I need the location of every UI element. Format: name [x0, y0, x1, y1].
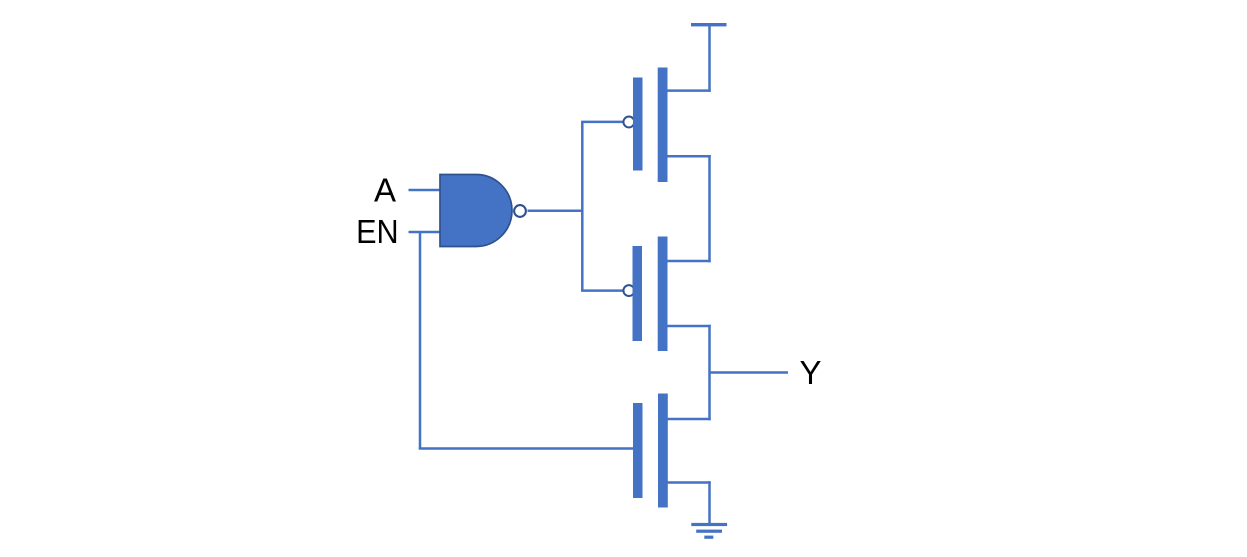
wire: input A to NAND — [409, 189, 441, 192]
ground bar 2 — [696, 530, 722, 533]
wire: Q1 drain to VDD — [667, 89, 711, 92]
wire: output Y — [710, 371, 789, 374]
wire: Q3 source — [668, 481, 711, 484]
wire: branch to Q1 gate — [581, 121, 623, 124]
transistor Q2 (PMOS) gate bar — [633, 246, 643, 341]
wire: NAND output — [528, 210, 584, 213]
transistor Q2 (PMOS) channel bar — [658, 237, 668, 352]
NAND gate U1 output bubble — [514, 205, 526, 217]
power VDD rail bar — [691, 23, 727, 26]
wire: VDD vertical — [708, 25, 711, 92]
svg-text:A: A — [374, 172, 396, 209]
svg-text:EN: EN — [356, 213, 399, 250]
ground bar 3 — [704, 536, 713, 539]
wire: input EN to NAND — [409, 231, 441, 234]
wire: Q2 drain — [667, 260, 711, 263]
ground bar 1 — [691, 523, 727, 526]
wire: Q2 source — [667, 325, 711, 328]
wire: Q3 drain up to Y — [668, 418, 711, 421]
svg-text:Y: Y — [800, 354, 822, 391]
wire: Q2 source to Q3 drain vertical (node Y) — [708, 325, 711, 420]
transistor Q1 gate bubble — [623, 117, 634, 128]
wire: gate branch vertical — [581, 122, 584, 291]
transistor Q3 (NMOS) channel bar — [658, 394, 668, 508]
wire: Q1 source down — [667, 155, 711, 158]
wire: source to ground vertical — [708, 481, 711, 524]
transistor Q2 gate bubble — [623, 285, 634, 296]
wire: EN branch down — [419, 232, 422, 449]
transistor Q1 (PMOS) gate bar — [633, 78, 643, 171]
wire: EN to NMOS Q3 gate — [419, 447, 633, 450]
wire: Q1 source to Q2 drain vertical — [708, 155, 711, 262]
NAND gate U1 body — [440, 175, 512, 247]
transistor Q1 (PMOS) channel bar — [658, 68, 668, 183]
wire: branch to Q2 gate — [581, 289, 623, 292]
transistor Q3 (NMOS) gate bar — [633, 403, 643, 498]
